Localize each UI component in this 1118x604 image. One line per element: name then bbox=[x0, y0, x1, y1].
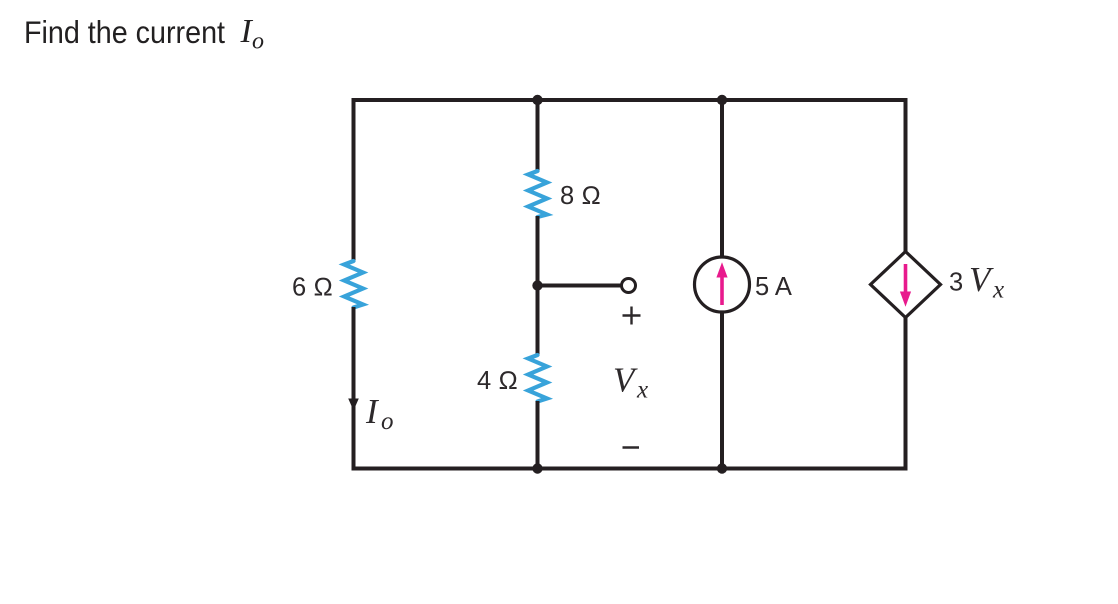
node dot bottom-middle bbox=[532, 463, 542, 473]
wire: middle branch (x=537.5) top segment bbox=[536, 98, 540, 172]
wire: middle branch mid segment bbox=[536, 216, 540, 356]
wire: stub to open terminal bbox=[538, 284, 621, 288]
resistor R 4ohm zigzag bbox=[528, 355, 547, 402]
svg-text:5 A: 5 A bbox=[755, 273, 792, 301]
wire: current source branch top bbox=[720, 98, 724, 258]
node dot top-middle bbox=[532, 95, 542, 105]
wire: left branch upper segment bbox=[352, 98, 356, 262]
plus sign bbox=[623, 307, 641, 325]
open terminal circle bbox=[622, 279, 636, 293]
svg-text:8 Ω: 8 Ω bbox=[560, 182, 601, 210]
svg-text:Find the current: Find the current bbox=[24, 14, 225, 50]
svg-text:o: o bbox=[252, 29, 264, 55]
svg-text:4 Ω: 4 Ω bbox=[477, 367, 518, 395]
arrow Io on left wire (down) bbox=[348, 399, 359, 411]
wire: middle branch bottom segment bbox=[536, 401, 540, 471]
node dot bottom current source bbox=[717, 463, 727, 473]
resistor R 6ohm zigzag bbox=[344, 261, 363, 308]
wire: left branch lower segment bbox=[352, 307, 356, 471]
node dot top current source bbox=[717, 95, 727, 105]
node dot middle junction bbox=[532, 280, 542, 290]
svg-text:o: o bbox=[381, 408, 394, 435]
wire: top horizontal A-B bbox=[352, 98, 908, 102]
wire: right branch top bbox=[904, 98, 908, 253]
svg-text:x: x bbox=[636, 377, 648, 404]
resistor R 8ohm zigzag bbox=[528, 171, 547, 217]
wire: right branch bottom bbox=[904, 316, 908, 471]
arrow inside source (up, magenta) bbox=[720, 275, 724, 305]
dependent source diamond 3Vx bbox=[871, 252, 941, 318]
svg-text:x: x bbox=[992, 277, 1004, 304]
svg-text:3: 3 bbox=[949, 269, 963, 297]
minus sign bbox=[623, 446, 640, 449]
svg-text:V: V bbox=[969, 260, 994, 299]
title: Find the current Io bbox=[24, 13, 264, 55]
wire: bottom horizontal bbox=[352, 467, 908, 471]
svg-text:6 Ω: 6 Ω bbox=[292, 274, 333, 302]
wire: current source branch bottom bbox=[720, 311, 724, 471]
svg-text:V: V bbox=[613, 361, 638, 400]
arrow inside diamond (down, magenta) bbox=[904, 264, 908, 294]
current source circle 5A bbox=[695, 257, 750, 312]
